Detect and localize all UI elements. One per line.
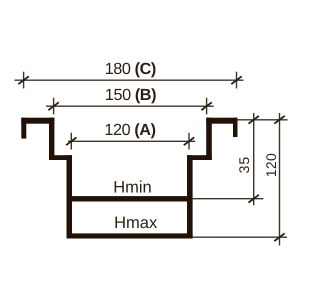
dimension C left tick bbox=[18, 76, 28, 84]
dimension B line bbox=[46, 105, 214, 107]
dimension A line bbox=[68, 140, 195, 142]
dimension B right extension bbox=[206, 98, 208, 115]
dimension C right tick bbox=[231, 76, 241, 84]
channel profile right stub bbox=[233, 118, 238, 137]
channel profile left step bar bbox=[49, 155, 72, 160]
channel profile left inner wall bbox=[67, 155, 73, 238]
dimension A left tick bbox=[66, 137, 76, 145]
dimension B left extension bbox=[53, 98, 55, 115]
dimension C left extension bbox=[23, 72, 25, 89]
dimension C line bbox=[15, 79, 244, 81]
channel profile bottom bar bbox=[67, 233, 193, 238]
svg-text:150 (B): 150 (B) bbox=[105, 86, 156, 104]
dimension A left extension bbox=[70, 133, 72, 150]
channel profile right outer wall bbox=[206, 118, 212, 160]
channel profile right top bar bbox=[206, 118, 237, 124]
channel profile left top bar bbox=[21, 118, 54, 124]
svg-text:35: 35 bbox=[236, 156, 252, 174]
channel profile right step bar bbox=[187, 155, 212, 160]
Hmin level extension line right of profile bbox=[193, 198, 264, 200]
dimension A right extension bbox=[188, 133, 190, 150]
dimension C right extension bbox=[236, 72, 238, 89]
dimension B right tick bbox=[201, 102, 211, 110]
svg-text:Hmin: Hmin bbox=[113, 179, 152, 197]
svg-text:Hmax: Hmax bbox=[114, 214, 158, 232]
dimension 120 top tick bbox=[274, 116, 284, 124]
svg-text:180 (C): 180 (C) bbox=[105, 60, 156, 78]
svg-text:120: 120 bbox=[263, 153, 279, 177]
svg-text:120 (A): 120 (A) bbox=[104, 121, 155, 139]
channel profile left stub bbox=[21, 118, 26, 139]
dimension 35 top tick bbox=[249, 116, 259, 124]
dimension B left tick bbox=[48, 102, 58, 110]
dimension 35 bottom tick bbox=[249, 195, 259, 203]
dimension 35 vertical line bbox=[253, 113, 255, 205]
channel profile right inner wall bbox=[187, 155, 193, 238]
dimension 120 bottom tick bbox=[274, 233, 284, 241]
Hmin level thick line bbox=[67, 196, 193, 201]
top extension line right of profile bbox=[238, 119, 288, 121]
dimension 120 vertical line bbox=[279, 113, 281, 246]
dimension A right tick bbox=[184, 137, 194, 145]
channel profile left outer wall bbox=[49, 118, 54, 160]
bottom extension line right of profile bbox=[193, 236, 287, 238]
